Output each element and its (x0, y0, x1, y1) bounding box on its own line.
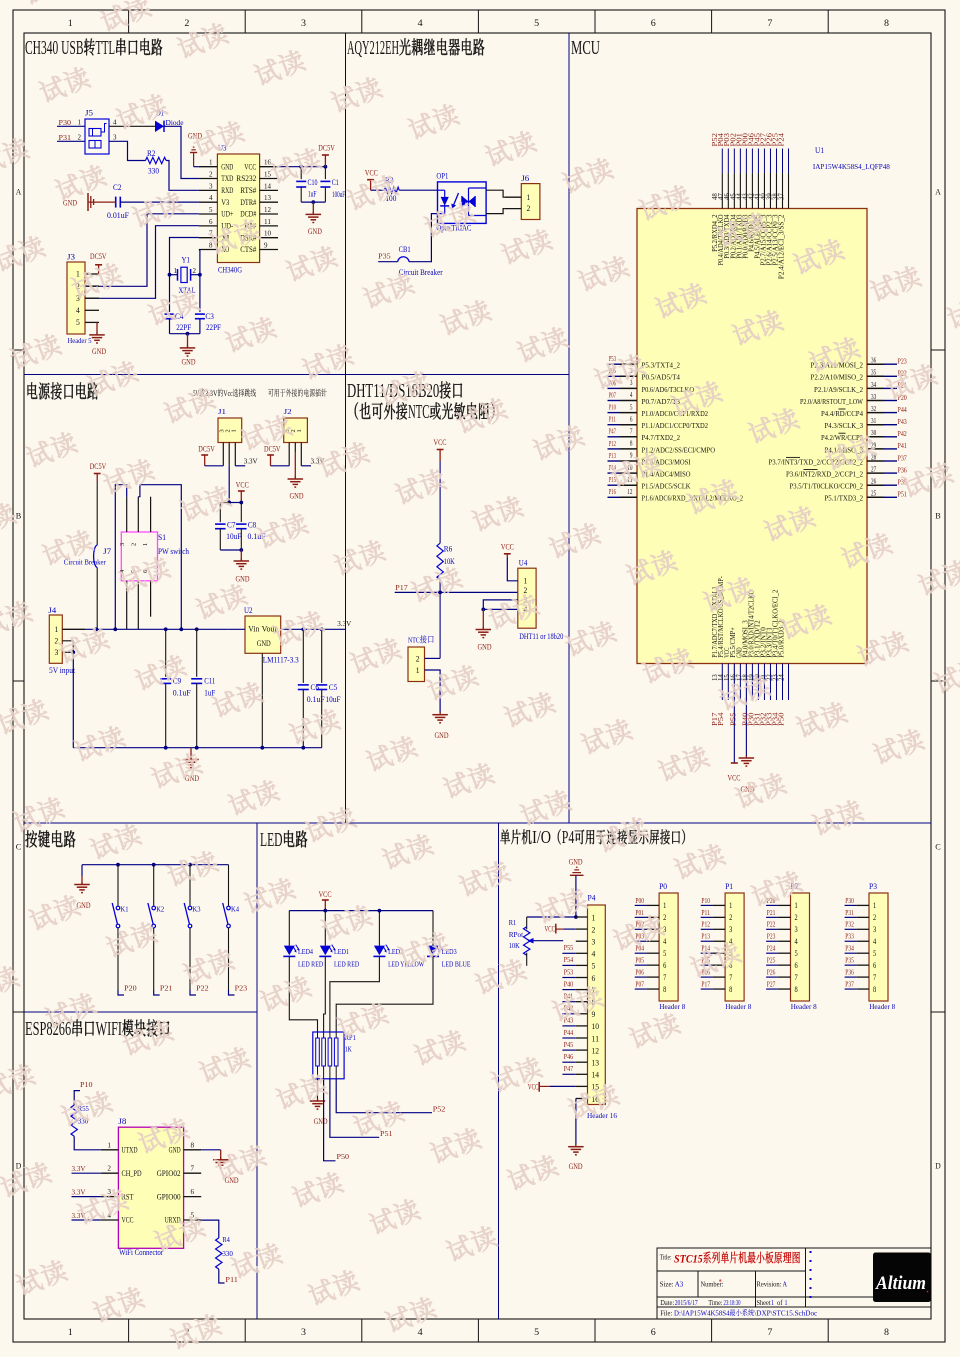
svg-text:GND: GND (569, 1162, 583, 1171)
U3 pin 6 (199, 225, 218, 227)
junction (179, 627, 183, 631)
wire U1 VCC (733, 664, 735, 764)
svg-text:3: 3 (55, 648, 59, 657)
wire crystal pin1 (170, 274, 178, 276)
wire GND to C2 (88, 201, 116, 203)
svg-text:15: 15 (264, 171, 272, 179)
wire J7 to bus (96, 568, 98, 630)
svg-text:LED: LED (260, 829, 283, 851)
ruler tick right (931, 1011, 945, 1013)
P4 pin 2 (576, 928, 588, 930)
svg-text:D: D (935, 1161, 941, 1171)
wire ground bus (73, 747, 321, 749)
svg-text:3: 3 (301, 18, 307, 28)
svg-text:P24: P24 (778, 132, 785, 146)
svg-text:GND: GND (290, 492, 304, 501)
svg-text:P55: P55 (564, 943, 574, 952)
svg-text:I/O: I/O (532, 827, 551, 847)
capacitor C7 10uF (215, 523, 226, 525)
svg-text:2: 2 (729, 913, 732, 922)
wire P4 pin16 to GND (575, 1099, 577, 1147)
power port GND below P4 (575, 1144, 577, 1147)
svg-text:4: 4 (663, 937, 666, 946)
svg-text:8: 8 (630, 441, 633, 448)
svg-text:LED1: LED1 (334, 947, 349, 956)
U1 pin 42 wire net P46 (757, 149, 759, 174)
wire VCC to R6 (439, 461, 441, 543)
svg-text:8: 8 (209, 242, 213, 250)
svg-text:4: 4 (592, 950, 596, 959)
U1 pin 7 net P47 (608, 436, 621, 438)
svg-text:P11: P11 (225, 1275, 238, 1284)
svg-text:6: 6 (630, 416, 633, 423)
svg-text:DCD#: DCD# (240, 210, 256, 219)
svg-text:GND: GND (308, 227, 322, 236)
svg-text:1K: 1K (345, 1045, 352, 1054)
wire OP1 to J6 pin2 (486, 209, 504, 214)
U3 pin 7 (199, 237, 218, 239)
power port VCC below U1 (731, 762, 738, 764)
junction (239, 548, 243, 552)
wire U3 XI to crystal and C4 (170, 238, 199, 312)
junction (320, 627, 324, 631)
wire J2 pin3 to 3.3V (301, 465, 311, 467)
svg-text:P27: P27 (767, 979, 776, 988)
power port GND below C10/C1 (312, 202, 314, 214)
S1 top stubs (126, 497, 128, 532)
svg-text:P17: P17 (395, 583, 408, 592)
U3 pin 2 (199, 178, 218, 180)
svg-text:P43: P43 (898, 417, 907, 426)
wire OP1 pin2 to CB1 (409, 214, 438, 262)
P4 pin 1 (576, 916, 588, 918)
svg-text:File:: File: (660, 1309, 672, 1317)
U1 pin 6 net P11 (608, 424, 621, 426)
svg-text:Sheet: Sheet (757, 1299, 771, 1307)
svg-text:P16: P16 (609, 487, 616, 496)
P3 pin 8 net P37 (856, 988, 869, 990)
svg-text:P12: P12 (701, 920, 710, 929)
svg-text:C1: C1 (332, 178, 339, 187)
svg-text:3: 3 (113, 134, 117, 142)
junction (195, 746, 199, 750)
svg-text:VCC: VCC (728, 774, 741, 783)
junction (186, 332, 190, 336)
svg-text:P45: P45 (564, 1040, 574, 1049)
svg-text:4: 4 (209, 194, 213, 202)
svg-text:14: 14 (264, 182, 272, 190)
svg-text:1: 1 (416, 666, 420, 675)
svg-text:0.01uF: 0.01uF (107, 211, 130, 220)
wire J8 GND (201, 1149, 221, 1151)
ruler tick bottom 3|4 (361, 1319, 363, 1342)
svg-text:LED BLUE: LED BLUE (442, 960, 471, 969)
svg-text:34: 34 (871, 382, 877, 389)
svg-text:5: 5 (663, 949, 666, 958)
svg-text:2: 2 (107, 1165, 111, 1173)
svg-text:8: 8 (884, 1327, 890, 1337)
power port GND below RP1 (317, 1099, 319, 1101)
J4 pin2 pin3 wires (62, 641, 73, 653)
svg-text:P36: P36 (898, 465, 907, 474)
J8 pin 1 (101, 1149, 119, 1151)
svg-text:22PF: 22PF (206, 323, 221, 332)
svg-text:D: D (16, 1161, 22, 1171)
ruler tick left (13, 1011, 24, 1013)
svg-text:P21: P21 (767, 908, 776, 917)
svg-text:P50: P50 (337, 1152, 350, 1161)
junction (195, 627, 199, 631)
svg-text:24: 24 (778, 674, 785, 681)
svg-text:Header 8: Header 8 (659, 1002, 685, 1011)
svg-text:P4: P4 (562, 827, 575, 847)
P1 pin 2 net P11 (712, 916, 725, 918)
svg-text:P2.0/A8/RSTOUT_LOW: P2.0/A8/RSTOUT_LOW (800, 397, 864, 406)
P4 pin 12 (576, 1049, 588, 1051)
svg-text:14: 14 (592, 1071, 600, 1080)
svg-text:DC5V: DC5V (90, 462, 107, 471)
P0 pin 1 net P00 (646, 904, 659, 906)
wire D1 to U3 TXD (164, 126, 199, 178)
U1 pin 1 net P53 (608, 363, 621, 365)
ruler tick top 5|6 (594, 10, 596, 33)
svg-text:P20: P20 (124, 983, 137, 992)
wire R55 to J8 pin1 (74, 1136, 101, 1150)
svg-text:*: * (719, 1278, 722, 1287)
svg-text:DC5V: DC5V (318, 144, 335, 153)
P3 pin 5 net P34 (856, 952, 869, 954)
svg-text:P5.3/TXT4_2: P5.3/TXT4_2 (642, 361, 681, 370)
junction (188, 863, 192, 867)
ruler tick left (13, 680, 24, 682)
capacitor C4 22PF (165, 313, 175, 315)
svg-text:6: 6 (651, 1327, 657, 1337)
svg-text:B: B (935, 511, 941, 521)
P4 pin 5 (576, 964, 588, 966)
wire J5 pin3 to R2 (109, 141, 146, 160)
svg-text:P07: P07 (609, 390, 616, 399)
svg-text:5: 5 (76, 318, 80, 327)
overline WR (839, 432, 846, 434)
svg-text:AQY212EH: AQY212EH (347, 37, 399, 59)
svg-text:5: 5 (534, 18, 540, 28)
svg-text:7: 7 (191, 1165, 195, 1173)
U1 pin 31 net P43 (867, 424, 884, 426)
junction (481, 608, 485, 612)
wire J1 pin3 to 3.3V (235, 465, 245, 467)
svg-text:5: 5 (630, 404, 633, 411)
svg-text:33: 33 (871, 394, 877, 401)
P4 pin 3 (576, 940, 588, 942)
svg-text:GND: GND (257, 639, 271, 648)
svg-text:2: 2 (209, 171, 213, 179)
P1 pin 4 net P13 (712, 940, 725, 942)
U1 pin 32 net P44 (867, 412, 884, 414)
U3 pin 13 (260, 201, 278, 203)
svg-text:Title:: Title: (660, 1253, 672, 1261)
svg-text:C2: C2 (113, 183, 122, 192)
svg-text:P17: P17 (701, 979, 710, 988)
S1 bottom stubs (126, 581, 128, 630)
U1 pin 43 wire net P00 (751, 149, 753, 174)
svg-text:4: 4 (76, 306, 80, 315)
svg-text:1: 1 (795, 901, 798, 910)
svg-text:6: 6 (663, 961, 666, 970)
P1 pin 6 net P15 (712, 964, 725, 966)
wire R1 to P4 pin1 (527, 916, 576, 918)
wire C4 C3 to GND (169, 319, 171, 334)
wire K3 to net label (189, 928, 191, 990)
svg-text:P40: P40 (564, 979, 574, 988)
svg-text:GND: GND (182, 358, 196, 367)
svg-text:8: 8 (884, 18, 890, 28)
wire crystal pin2 (191, 274, 200, 276)
wire key bus (82, 864, 229, 866)
J3 pin 3 (85, 297, 99, 299)
J8 pin 5 (184, 1219, 202, 1221)
svg-text:Time:: Time: (708, 1299, 722, 1307)
svg-text:6: 6 (191, 1188, 195, 1196)
switch K2 (153, 865, 155, 907)
svg-text:J5: J5 (85, 109, 93, 118)
svg-text:GND: GND (236, 575, 250, 584)
U3 pin 10 (260, 237, 278, 239)
U3 pin 15 (260, 178, 278, 180)
svg-text:P4.2/WR/CCP5: P4.2/WR/CCP5 (821, 433, 863, 442)
svg-text:P4.3/SCLK_3: P4.3/SCLK_3 (825, 421, 864, 430)
svg-text:2: 2 (592, 925, 596, 934)
svg-text:2: 2 (663, 913, 666, 922)
wire R3 to OP1 (399, 189, 437, 191)
wire P17 node to NTC (439, 592, 441, 658)
svg-text:8: 8 (729, 985, 732, 994)
svg-text:P01: P01 (635, 908, 644, 917)
LED LED3 (428, 946, 439, 956)
svg-text:25: 25 (871, 491, 877, 498)
junction (116, 863, 120, 867)
svg-text:3: 3 (301, 1327, 307, 1337)
J8 pin 4 (101, 1219, 119, 1221)
J3 pin 1 (85, 273, 99, 275)
svg-text:2: 2 (416, 654, 420, 663)
junction (301, 746, 305, 750)
section divider horizontal middle (24, 822, 931, 824)
capacitor C1 100uF (324, 167, 326, 179)
U1 pin 3 net P06 (608, 387, 621, 389)
svg-text:J2: J2 (284, 407, 292, 416)
svg-text:12: 12 (264, 206, 272, 214)
svg-text:1: 1 (771, 1299, 774, 1307)
svg-text:of: of (777, 1299, 783, 1307)
J8 pin 2 (101, 1172, 119, 1174)
svg-text:LED RED: LED RED (334, 960, 359, 969)
U1 pin 12 net P16 (608, 496, 621, 498)
section divider vertical LED|IO (498, 823, 500, 1319)
svg-text:Date:: Date: (660, 1299, 674, 1307)
wire bus to U2 Vin (228, 628, 245, 630)
svg-text:9: 9 (630, 453, 633, 460)
svg-text:C7: C7 (227, 521, 236, 530)
svg-text:P21: P21 (160, 983, 173, 992)
P4 pin 8 (576, 1001, 588, 1003)
P1 pin 5 net P14 (712, 952, 725, 954)
wire DC5V to J1 pin (205, 465, 224, 467)
svg-text:P41: P41 (898, 441, 907, 450)
svg-text:Header 8: Header 8 (791, 1002, 817, 1011)
svg-text:J4: J4 (48, 606, 56, 615)
U3 pin 12 (260, 213, 278, 215)
svg-text:R2: R2 (147, 149, 156, 158)
J2 stubs (288, 443, 290, 466)
svg-text:TTL: TTL (96, 37, 116, 59)
wire VCC to U4 pin1 (507, 558, 518, 581)
svg-text:P10: P10 (609, 403, 616, 412)
junction (574, 915, 578, 919)
P3 pin 2 net P31 (856, 916, 869, 918)
svg-text:UTXD: UTXD (122, 1146, 138, 1155)
P3 pin 4 net P33 (856, 940, 869, 942)
svg-text:A: A (783, 1280, 788, 1289)
P4 pin 16 (576, 1098, 588, 1100)
wire OP1 to J6 pin1 (486, 190, 504, 197)
junction (164, 746, 168, 750)
ruler tick right (931, 349, 945, 351)
svg-text:Altium: Altium (875, 1274, 926, 1294)
svg-text:1: 1 (663, 901, 666, 910)
U1 pin 45 wire net P02 (739, 149, 741, 174)
switch K3 (189, 865, 191, 907)
svg-text:GPIO02: GPIO02 (157, 1169, 181, 1178)
svg-text:DC5V: DC5V (264, 445, 281, 454)
svg-text:STC15: STC15 (674, 1253, 703, 1265)
svg-text:P12: P12 (609, 439, 616, 448)
svg-text:DTR#: DTR# (240, 198, 256, 207)
section divider vertical keys|LED (256, 823, 258, 1319)
svg-text:K2: K2 (156, 904, 164, 913)
svg-text:1: 1 (524, 577, 528, 586)
svg-text:1uF: 1uF (308, 190, 317, 199)
svg-text:GND: GND (169, 1146, 181, 1155)
svg-text:A: A (16, 187, 22, 197)
P2 pin 4 net P23 (778, 940, 791, 942)
svg-text:9: 9 (264, 242, 268, 250)
svg-text:1: 1 (785, 1299, 788, 1307)
svg-text:3: 3 (873, 925, 876, 934)
svg-text:5: 5 (534, 1327, 540, 1337)
P4 pin 7 (576, 989, 588, 991)
svg-text:37: 37 (778, 193, 785, 200)
wire U3 UD- to J3 pin3 (85, 226, 199, 299)
wire R4 to P11 (219, 1269, 225, 1283)
overline INT2 (804, 469, 818, 471)
svg-text:3: 3 (119, 543, 126, 546)
svg-text:10K: 10K (509, 941, 520, 950)
svg-text:5: 5 (592, 962, 596, 971)
junction (71, 650, 75, 654)
svg-text:P55: P55 (730, 712, 737, 726)
svg-text:GND: GND (314, 1117, 328, 1126)
svg-text:Vin: Vin (248, 625, 259, 634)
resistor R55 330 (71, 1105, 77, 1136)
svg-text:P47: P47 (564, 1064, 574, 1073)
svg-text:P37: P37 (845, 979, 854, 988)
U3 pin 1 (199, 166, 218, 168)
P1 pin 8 net P17 (712, 988, 725, 990)
svg-text:P37: P37 (898, 453, 907, 462)
svg-text:\DXP\STC15.SchDoc: \DXP\STC15.SchDoc (754, 1308, 818, 1317)
P0 pin 8 net P07 (646, 988, 659, 990)
junction (378, 909, 382, 913)
svg-text:7: 7 (630, 429, 633, 436)
wire U4 pin3 pin4 to GND (483, 600, 518, 610)
wire DC5V to J2 pin1 (271, 465, 290, 467)
svg-text:C: C (935, 842, 941, 852)
section divider vertical AQY|MCU (568, 33, 570, 823)
svg-text:P30: P30 (59, 118, 72, 127)
J8 pin 3 (101, 1196, 119, 1198)
U3 pin 11 (260, 225, 278, 227)
J3 pin 5 (85, 321, 99, 323)
svg-text:P1.4/ADC4/MISO: P1.4/ADC4/MISO (642, 470, 691, 479)
svg-text:3.3V: 3.3V (72, 1187, 86, 1196)
svg-text:330: 330 (222, 1249, 233, 1258)
svg-text:P30: P30 (845, 896, 854, 905)
wire K4 to net label (228, 928, 230, 990)
wire GND to U3 pin1 (194, 166, 199, 168)
junction (94, 627, 98, 631)
svg-text:C5: C5 (329, 683, 338, 692)
svg-text:CH_PD: CH_PD (122, 1169, 142, 1178)
svg-text:P53: P53 (609, 354, 616, 363)
J8 pin 6 (184, 1196, 202, 1198)
svg-text:GND: GND (435, 731, 449, 740)
wire bus to S1 pin3 (115, 485, 126, 630)
svg-text:P46: P46 (564, 1052, 574, 1061)
resistor R2 330 (146, 157, 167, 163)
ruler tick bottom 1|2 (128, 1319, 130, 1342)
svg-text:OP1: OP1 (436, 172, 448, 181)
P4 pin 13 (576, 1061, 588, 1063)
svg-text:PW switch: PW switch (158, 547, 189, 556)
svg-text:7: 7 (873, 973, 876, 982)
U1 pin 36 net P23 (867, 363, 884, 365)
svg-text:10: 10 (264, 230, 272, 238)
svg-text:P06: P06 (635, 968, 644, 977)
svg-text:13: 13 (264, 194, 272, 202)
wire bus to GND (81, 865, 83, 876)
svg-text:P31: P31 (845, 908, 854, 917)
svg-text:P22: P22 (196, 983, 209, 992)
capacitor C8 0.1uF (236, 523, 247, 525)
svg-text:P2.2/A10/MISO_2: P2.2/A10/MISO_2 (811, 373, 864, 382)
wire LED4 to RP1 leg1 (289, 956, 317, 1032)
wire bus to LED4 (288, 911, 290, 946)
svg-text:23:18:30: 23:18:30 (724, 1299, 741, 1307)
svg-text:Header 8: Header 8 (725, 1002, 751, 1011)
potentiometer R1 RPot 10K (526, 917, 528, 929)
svg-text:P13: P13 (609, 451, 616, 460)
switch S1 PW switch (121, 532, 157, 581)
U1 pin 10 net P14 (608, 472, 621, 474)
svg-text:P31: P31 (59, 133, 72, 142)
svg-text:6: 6 (592, 974, 596, 983)
svg-text:5: 5 (209, 206, 213, 214)
ruler tick top 1|2 (128, 10, 130, 33)
svg-text:P34: P34 (845, 944, 854, 953)
svg-text:4: 4 (418, 1327, 424, 1337)
svg-text:P51: P51 (380, 1129, 393, 1138)
svg-text:P5.1/TXD3_2: P5.1/TXD3_2 (825, 494, 864, 503)
